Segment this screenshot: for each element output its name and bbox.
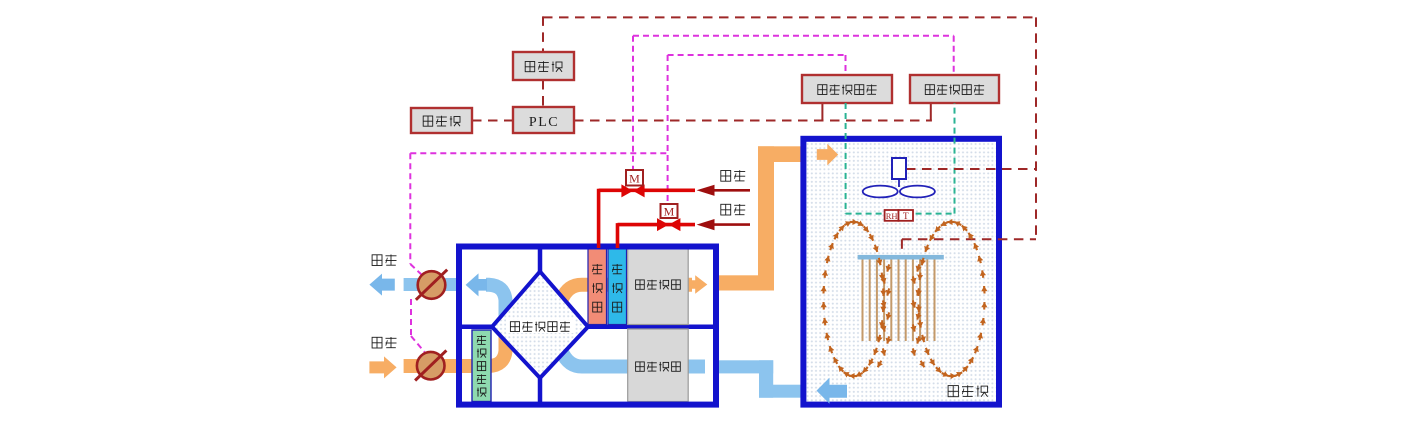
drying room border xyxy=(803,139,999,405)
return band from right through exchanger xyxy=(552,337,705,367)
label 蒸汽 1 xyxy=(721,171,731,182)
label 蒸汽 2 xyxy=(721,204,731,215)
wire M1 to temperature controller xyxy=(633,35,954,37)
fan stem xyxy=(898,179,900,187)
wire right drop xyxy=(1035,17,1037,239)
wire PLC top bus xyxy=(543,16,1036,18)
steam supply 2 xyxy=(712,223,750,226)
air filter 空气过滤器 xyxy=(472,330,491,402)
downdraft column right xyxy=(917,264,919,271)
label exhaust air 排气 xyxy=(372,255,382,266)
touch screen 触摸屏 xyxy=(411,108,472,133)
downdraft column left xyxy=(887,264,889,271)
humidity controller 湿度控制器 xyxy=(802,75,892,103)
steam supply 1 xyxy=(712,189,750,192)
wire inverter to PLC xyxy=(542,80,544,107)
steam pipe to heater xyxy=(599,189,695,248)
exhaust arrow xyxy=(369,274,394,296)
wire humidity controller stub xyxy=(821,103,823,122)
fan blade left xyxy=(863,186,898,198)
wire damper control drop xyxy=(409,153,411,264)
svg-text:M: M xyxy=(664,205,675,219)
wire valve M2 control xyxy=(667,55,669,204)
heater 加热器 xyxy=(588,249,607,325)
label 显热换热器 xyxy=(510,322,519,332)
supply band from exchanger through heater xyxy=(552,285,692,316)
drying room interior xyxy=(806,141,999,404)
wire damper control horizontal xyxy=(410,152,667,154)
centrifugal fan top 离心风机 xyxy=(628,249,689,325)
wire rack stub xyxy=(901,239,903,255)
valve M1 xyxy=(621,184,633,197)
fan blade right xyxy=(900,186,935,198)
rack bar xyxy=(858,255,944,260)
supply duct horizontal from AHU xyxy=(716,275,774,290)
circulation fan motor xyxy=(892,158,906,179)
outside air arrow xyxy=(369,356,396,378)
return duct from room xyxy=(759,385,801,398)
AHU middle divider right xyxy=(586,325,716,330)
exhaust damper xyxy=(418,271,446,299)
valve M1 actuator box xyxy=(626,170,643,186)
supply arrow inside AHU xyxy=(687,275,707,294)
wire RH sensor to humidity controller xyxy=(845,103,847,214)
fresh air band through filter into exchanger xyxy=(404,328,506,366)
return duct to AHU xyxy=(719,360,773,373)
wire humidity controller top stub xyxy=(845,55,847,75)
wire T sensor to temperature controller xyxy=(954,103,956,214)
wire damper 2 link xyxy=(411,336,425,352)
centrifugal fan bottom 离心风机 xyxy=(628,329,689,402)
supply duct into room xyxy=(758,146,807,162)
wire inverter riser xyxy=(542,16,544,52)
svg-text:RH: RH xyxy=(886,211,898,221)
wire temperature controller stub xyxy=(930,103,932,122)
exhaust arrow inside AHU xyxy=(466,273,487,296)
wire fan motor branch xyxy=(906,168,1036,170)
exhaust duct band xyxy=(404,278,457,291)
supply duct riser xyxy=(758,146,774,290)
RH sensor xyxy=(885,210,899,221)
return duct step xyxy=(759,360,773,397)
intake damper xyxy=(417,352,445,380)
label outside air 外气 xyxy=(372,337,382,348)
AHU outer border xyxy=(459,247,716,405)
hanging material strips xyxy=(862,260,864,342)
exhaust band from exchanger to left xyxy=(486,285,506,325)
label 显热换热器 backing xyxy=(506,320,574,334)
wire touchscreen to PLC xyxy=(472,120,513,122)
wire temperature controller top stub xyxy=(953,36,955,75)
frequency inverter 变频器 xyxy=(513,52,574,80)
AHU bottom divider xyxy=(538,376,543,402)
wire M2 to humidity controller xyxy=(668,54,846,56)
wire damper drop 2 xyxy=(410,299,412,336)
label 干燥室 xyxy=(948,386,958,397)
circulation ring left xyxy=(882,305,885,313)
T sensor xyxy=(899,210,914,221)
AHU middle divider left xyxy=(456,325,494,330)
wire valve M1 control xyxy=(632,36,634,170)
svg-text:M: M xyxy=(629,172,640,186)
wire sensor bus xyxy=(846,213,955,215)
return air arrow out of room xyxy=(817,378,848,404)
valve M2 xyxy=(657,218,669,231)
steam pipe to humidifier xyxy=(618,223,696,248)
svg-text:PLC: PLC xyxy=(529,115,559,130)
AHU top divider xyxy=(538,249,543,273)
heat exchanger diamond 显热换热器 xyxy=(492,272,588,379)
supply air arrow into room xyxy=(817,144,838,166)
temperature controller 温度控制器 xyxy=(910,75,999,103)
PLC xyxy=(513,107,574,133)
wire damper 1 link xyxy=(410,264,423,276)
wire rack branch xyxy=(902,238,1036,240)
svg-text:T: T xyxy=(903,212,909,222)
humidifier 加湿器 xyxy=(608,249,627,325)
wire PLC to controllers bus xyxy=(574,120,932,122)
circulation ring right xyxy=(917,305,920,313)
valve M2 actuator box xyxy=(661,204,678,218)
